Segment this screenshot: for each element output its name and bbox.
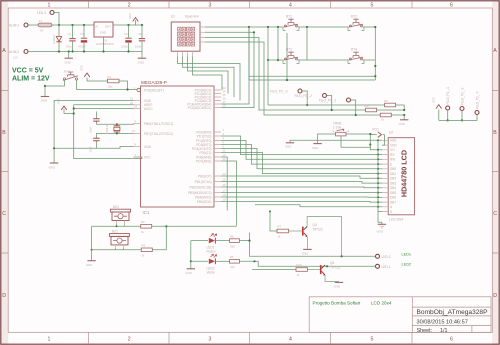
svg-text:GND: GND	[138, 61, 144, 65]
svg-text:RS: RS	[390, 153, 394, 157]
svg-text:FILO_P2_-3: FILO_P2_-3	[270, 90, 288, 94]
junction r8	[248, 240, 250, 242]
wire vertical bt net 287	[286, 33, 288, 80]
wire Q5 collector to LED-1 net	[325, 265, 327, 266]
svg-text:VCC: VCC	[80, 65, 84, 71]
svg-text:5: 5	[371, 336, 374, 342]
svg-text:16: 16	[223, 183, 227, 187]
wire lcd pin stub rw	[378, 158, 382, 160]
svg-text:1/1: 1/1	[440, 328, 448, 334]
svg-text:TIP122: TIP122	[330, 266, 341, 270]
svg-text:RW: RW	[390, 158, 395, 162]
wire lcd pin stub db3	[378, 182, 382, 184]
junction filo p1-1	[447, 119, 449, 121]
wire R7 to Q4 base	[289, 230, 303, 232]
resistor R9	[230, 260, 240, 264]
svg-text:U2: U2	[389, 131, 393, 135]
wire lcd A feed	[255, 205, 300, 207]
svg-text:BombObj_ATmega328P: BombObj_ATmega328P	[417, 309, 489, 316]
svg-text:PD1(TXD): PD1(TXD)	[197, 134, 212, 138]
MCU right pin names PC	[187, 88, 211, 110]
resistor R6	[366, 108, 377, 112]
svg-text:Q4: Q4	[313, 223, 317, 227]
LED LED1	[209, 234, 217, 244]
junction r7 feed	[269, 210, 271, 212]
wire lcd pin stub db4	[378, 187, 382, 189]
svg-text:GND: GND	[65, 61, 71, 65]
connector FILO_P2-2 pin	[323, 94, 327, 98]
svg-text:6: 6	[450, 336, 453, 342]
MCU right pin names PB	[188, 174, 212, 204]
svg-text:VCC: VCC	[372, 127, 379, 131]
svg-text:PB1(OC1A): PB1(OC1A)	[195, 180, 212, 184]
svg-text:C: C	[493, 211, 497, 217]
svg-text:VSS: VSS	[390, 139, 396, 143]
wire lcd net column	[377, 140, 379, 211]
wire BT3 row	[268, 59, 283, 61]
buzzer BZ1 pin stubs	[117, 221, 125, 224]
svg-text:1N4007: 1N4007	[52, 34, 56, 44]
lcd column junctions	[377, 139, 379, 208]
svg-text:MEGA328-P: MEGA328-P	[141, 80, 167, 85]
wire vcc to R1	[87, 80, 108, 82]
connector LED-1 pin	[376, 264, 380, 268]
wire PB0 to db2	[221, 176, 378, 178]
wire R1 to reset net	[119, 81, 128, 90]
wire lcd pin stub a	[378, 206, 382, 208]
IC1 body	[141, 86, 215, 207]
svg-text:R9: R9	[230, 255, 234, 259]
wire PD6 down	[221, 157, 227, 211]
wire R5 to gnd column	[391, 114, 404, 116]
wire buzzer rail 2	[92, 249, 142, 251]
capacitor C7 22pF	[93, 112, 99, 125]
MCU left pin stubs	[134, 101, 141, 158]
connector FILO_P2-3 pin	[298, 89, 302, 93]
vcc symbol filo p1	[436, 105, 442, 121]
svg-text:PB4(MISO): PB4(MISO)	[195, 195, 211, 199]
svg-text:Progetto Bomba Softair: Progetto Bomba Softair	[313, 301, 361, 306]
resistor R8	[230, 239, 240, 243]
wire ALIM-1 to fuse	[28, 24, 38, 26]
title block outline	[309, 297, 491, 333]
svg-text:GND: GND	[86, 263, 92, 267]
svg-text:PD5(T1): PD5(T1)	[199, 151, 211, 155]
trimmer TRM1	[333, 129, 350, 136]
junction bus76 right	[374, 75, 376, 77]
wire bus horizontal y80	[249, 27, 375, 80]
wire led1 left	[191, 240, 208, 242]
junction sw-gnd	[44, 85, 46, 87]
resistor R10	[296, 268, 308, 272]
connector FILO_P2-1 pin	[347, 98, 351, 102]
svg-text:LED1: LED1	[402, 252, 412, 256]
svg-text:DB3: DB3	[390, 182, 396, 186]
ground symbol pullups	[399, 115, 409, 126]
wire trimmer wiper	[341, 134, 370, 147]
wire filo p2-2 drop	[327, 96, 332, 111]
wire LED-3 to rail	[54, 13, 59, 26]
svg-text:E: E	[390, 163, 392, 167]
svg-text:R1: R1	[108, 75, 112, 79]
svg-text:13: 13	[223, 157, 227, 161]
wire lcd pin stub rs	[378, 154, 382, 156]
ground symbol Q5	[334, 282, 344, 288]
svg-text:VCC: VCC	[432, 97, 436, 103]
svg-text:IN: IN	[95, 24, 98, 28]
right margin band	[492, 0, 500, 345]
vcc symbol analog	[61, 106, 67, 114]
junction bt row a	[267, 26, 269, 28]
junction filo p2-3	[306, 104, 308, 106]
wire R10 feed	[252, 269, 296, 271]
junction r6 gnd	[403, 109, 405, 111]
svg-text:5: 5	[371, 3, 374, 9]
capacitor C3 electrolytic	[125, 25, 131, 52]
wire PB5 to db7	[221, 201, 378, 204]
connector FILO_P1-3 pin	[475, 111, 479, 115]
wire BT2 right to bus	[363, 27, 375, 80]
LCD body	[388, 138, 414, 215]
svg-text:DB6: DB6	[390, 196, 396, 200]
junction bt row c	[306, 26, 308, 28]
svg-text:HD44780 LCD: HD44780 LCD	[400, 150, 409, 197]
keypad key dots	[179, 29, 194, 45]
svg-text:330: 330	[230, 265, 235, 269]
vcc symbol reset pullup	[84, 73, 90, 81]
wire PC5 up to row2	[221, 32, 254, 107]
ground symbol output section	[138, 52, 146, 65]
svg-text:PB0(ICP): PB0(ICP)	[198, 174, 211, 178]
wire AVCC pin	[74, 108, 134, 110]
junction PC4 row1	[248, 26, 250, 28]
svg-text:LM7805S/220: LM7805S/220	[96, 42, 114, 46]
wire vertical bt net 268	[267, 27, 269, 105]
svg-text:LED2: LED2	[402, 262, 412, 266]
ground symbol vss	[285, 143, 294, 149]
top band column dividers	[89, 1, 413, 8]
wire bz2 pins to rail	[116, 248, 124, 250]
resistor R1	[108, 79, 120, 83]
voltage regulator V1 box	[94, 22, 113, 37]
wire PB3 to db5	[221, 192, 378, 194]
wire lcd pin stub db7	[378, 201, 382, 203]
crystal Q1	[114, 124, 120, 133]
connector FILO_P1-2 pin	[460, 107, 464, 111]
wire R2 right	[152, 225, 237, 227]
svg-text:1: 1	[48, 3, 51, 9]
junction bz1 rail	[116, 225, 118, 227]
reset inversion bubble	[137, 88, 140, 91]
capacitor C8 22pF	[93, 133, 99, 148]
junction avcc	[73, 107, 75, 109]
wire switch left to gnd	[45, 80, 65, 96]
buzzer BZ2 pin stubs	[116, 245, 124, 248]
wire R9 to LED-1 connector	[239, 261, 375, 266]
junction bt3 left	[267, 59, 269, 61]
wire lcd vss gnd	[290, 140, 382, 142]
button BT1	[283, 19, 299, 30]
wire trimmer left to gnd	[318, 134, 336, 143]
left margin band	[0, 0, 8, 345]
svg-text:Q5: Q5	[330, 261, 334, 265]
wire XTAL1 net	[96, 123, 133, 126]
resistor R4	[385, 103, 396, 107]
svg-text:FILO_P2_-1: FILO_P2_-1	[319, 99, 337, 103]
wire lcd pin stub k	[378, 211, 382, 213]
svg-text:R7: R7	[278, 225, 282, 229]
svg-text:ALIM-1: ALIM-1	[9, 24, 20, 28]
svg-text:18: 18	[223, 193, 227, 197]
svg-text:D: D	[2, 293, 6, 299]
junction PC5 row2	[253, 31, 255, 33]
wire PB2 to db4	[221, 186, 378, 189]
wire PC4 up to row1	[221, 27, 249, 104]
svg-text:GND: GND	[377, 230, 383, 234]
junction r9	[253, 260, 255, 262]
svg-text:100nF: 100nF	[135, 45, 143, 49]
svg-text:LED-2: LED-2	[382, 255, 391, 259]
wire bus horizontal y76	[249, 75, 375, 77]
keypad body	[171, 22, 200, 51]
svg-text:GND: GND	[100, 30, 106, 34]
wire Q4 collector loop to LED-2 net	[307, 217, 342, 257]
svg-text:2: 2	[128, 336, 131, 342]
wire R3 right to node	[152, 226, 166, 250]
svg-text:4: 4	[289, 336, 292, 342]
resistor R3	[141, 248, 152, 252]
wire Q5 emitter to gnd	[325, 275, 339, 282]
connector FILO_P1-1 pin	[446, 106, 450, 110]
svg-text:PB6(XTAL1/TOSC1): PB6(XTAL1/TOSC1)	[144, 122, 173, 126]
svg-text:C3: C3	[124, 32, 128, 36]
svg-text:2: 2	[128, 3, 131, 9]
svg-text:5A: 5A	[40, 29, 44, 33]
svg-text:3: 3	[209, 3, 212, 9]
svg-text:B: B	[493, 130, 497, 136]
svg-text:C6: C6	[138, 32, 142, 36]
junction xtal1	[116, 123, 118, 125]
wire keypad col1 to PC3	[178, 56, 241, 100]
svg-text:PB5(SCK): PB5(SCK)	[197, 200, 212, 204]
svg-text:15: 15	[223, 178, 227, 182]
junction bt2 bus mid	[374, 65, 376, 67]
wire keypad col2 to PC2	[183, 56, 235, 97]
svg-text:17: 17	[223, 189, 227, 193]
ground symbol lcd	[377, 224, 387, 233]
svg-text:12V: 12V	[13, 56, 18, 60]
svg-text:GND: GND	[49, 166, 55, 170]
transistor Q4	[302, 227, 307, 238]
keypad keys 4x4	[178, 27, 195, 46]
svg-text:330: 330	[230, 244, 235, 248]
ground symbol leds	[186, 269, 196, 275]
svg-text:GND: GND	[186, 271, 192, 275]
svg-text:PB7(XTAL2/TOSC2): PB7(XTAL2/TOSC2)	[144, 132, 173, 136]
junction reset net	[126, 88, 128, 90]
junction gnd-C4	[83, 50, 85, 52]
wire lcd vo	[370, 145, 382, 150]
wire led2 left	[191, 260, 208, 262]
svg-text:FILO_P1_-3: FILO_P1_-3	[475, 91, 479, 109]
svg-text:220uF: 220uF	[121, 45, 129, 49]
LCD pin stubs	[382, 140, 388, 211]
svg-text:AVCC: AVCC	[144, 107, 153, 111]
svg-text:VCC: VCC	[128, 13, 132, 19]
wire r8 stub up	[249, 233, 251, 241]
junction trim right	[369, 133, 371, 135]
svg-text:Verde: Verde	[207, 270, 216, 274]
svg-text:R4: R4	[384, 99, 388, 103]
resistor R2	[141, 225, 152, 229]
connector LED-2 pin	[376, 254, 380, 258]
wire lcd pin stub e	[378, 163, 382, 165]
wire vcc to aref/avcc loop	[64, 105, 142, 159]
capacitor C1	[69, 25, 75, 52]
svg-text:BT2: BT2	[351, 15, 357, 19]
svg-text:21: 21	[130, 97, 134, 101]
left band row dividers	[1, 91, 8, 254]
wire R8 to LED-2 connector	[239, 241, 375, 257]
svg-text:GND: GND	[41, 99, 47, 103]
wire lcd vdd from vcc	[382, 135, 384, 146]
wire vertical bt net 307	[306, 27, 308, 60]
svg-text:GND: GND	[302, 252, 308, 256]
wire keypad col3 to PC1	[188, 56, 229, 93]
wire led1 to R8	[216, 240, 230, 242]
junction gnd drop	[53, 147, 55, 149]
svg-text:6: 6	[450, 3, 453, 9]
svg-text:GND: GND	[334, 285, 340, 289]
svg-text:1-10k: 1-10k	[333, 126, 341, 130]
wire PB1 to db3	[221, 182, 378, 184]
svg-text:FILO_P1_-2: FILO_P1_-2	[460, 87, 464, 105]
wire PD3 to e	[221, 145, 378, 165]
svg-text:C: C	[2, 211, 6, 217]
wire buzzer net up	[235, 210, 237, 226]
LCD pin names	[390, 139, 397, 214]
MCU right pin stubs PC	[214, 90, 221, 108]
svg-text:A: A	[2, 48, 6, 54]
junction gnd-diode	[58, 50, 60, 52]
svg-text:LCD 20x4: LCD 20x4	[389, 217, 403, 221]
ground symbol trimmer	[312, 144, 322, 150]
wire lcd pin stub db2	[378, 177, 382, 179]
wire +12V rail top	[52, 24, 94, 26]
svg-text:10: 10	[132, 129, 136, 133]
svg-text:VCC: VCC	[144, 155, 151, 159]
svg-text:10k: 10k	[364, 104, 369, 108]
junction led gnd	[190, 260, 192, 262]
svg-text:LED-1: LED-1	[382, 265, 391, 269]
wire Q4 emitter to gnd	[306, 237, 308, 249]
svg-text:VDD: VDD	[390, 144, 397, 148]
svg-text:ALIM-2: ALIM-2	[9, 50, 20, 54]
junction out-C6	[141, 24, 143, 26]
capacitor C4 electrolytic	[81, 25, 87, 52]
buzzer BZ2	[110, 234, 130, 245]
button BT3	[283, 52, 299, 63]
junction bt2 bus	[374, 26, 376, 28]
buzzer BZ1	[111, 209, 131, 220]
svg-text:ALIM = 12V: ALIM = 12V	[12, 76, 50, 83]
wire XTAL2 net	[96, 132, 133, 134]
wire backlight A	[300, 206, 378, 208]
junction bt row b2	[277, 26, 279, 28]
svg-text:22pF: 22pF	[89, 126, 93, 133]
svg-text:LED-3: LED-3	[37, 11, 46, 15]
capacitor C6	[139, 25, 145, 52]
svg-text:DB0: DB0	[390, 167, 396, 171]
junction filo p2-2	[331, 109, 333, 111]
wire R10 to Q5 base	[308, 269, 320, 271]
svg-text:R10: R10	[297, 263, 303, 267]
junction q5 led1	[326, 265, 328, 267]
svg-text:IC1: IC1	[143, 210, 150, 215]
wire led2 to R9	[216, 260, 230, 262]
svg-text:GND: GND	[312, 146, 318, 150]
button BT2	[348, 19, 364, 30]
svg-text:14: 14	[223, 172, 227, 176]
svg-text:BT4: BT4	[351, 48, 357, 52]
wire PD5 to db1	[221, 153, 378, 174]
svg-text:F1: F1	[39, 19, 43, 23]
wire lcd pin stub db1	[378, 173, 382, 175]
resistor R5	[380, 113, 391, 117]
wire R6 to gnd column	[377, 109, 405, 111]
junction trim wiper	[369, 143, 371, 145]
vcc symbol lcd	[370, 132, 381, 138]
wire lcd pin stub db6	[378, 196, 382, 198]
svg-text:3: 3	[209, 336, 212, 342]
wire pullup row R4	[268, 104, 385, 106]
junction r2 node	[165, 225, 167, 227]
wire keypad row1	[205, 26, 283, 28]
junction q4 led2	[341, 255, 343, 257]
junction xtal2	[116, 132, 118, 134]
ground symbol input section	[65, 52, 73, 65]
svg-text:LCD 20x4: LCD 20x4	[371, 301, 392, 306]
junction rail-C1	[71, 24, 73, 26]
svg-text:PB2(SS/OC1B): PB2(SS/OC1B)	[190, 185, 212, 189]
svg-text:BZ1: BZ1	[113, 205, 119, 209]
keypad right pin stubs	[200, 27, 205, 42]
svg-text:R8: R8	[230, 234, 234, 238]
svg-text:A: A	[493, 48, 497, 54]
svg-text:TIP122: TIP122	[313, 228, 324, 232]
LED LED2	[209, 254, 217, 264]
junction out-C3	[127, 24, 129, 26]
svg-text:FILO_P2_-2: FILO_P2_-2	[295, 94, 313, 98]
wire trimmer right to lcd	[346, 133, 370, 135]
wire lcd k to gnd	[378, 212, 382, 224]
svg-text:B: B	[2, 130, 6, 136]
svg-text:DB2: DB2	[390, 177, 396, 181]
svg-text:Sheet:: Sheet:	[417, 328, 433, 334]
wire ground rail bottom	[28, 51, 142, 53]
wire filo p2-1 drop	[351, 100, 356, 115]
wire keypad col4 to PC0	[193, 56, 223, 90]
wire keypad row4 to R5	[205, 42, 380, 115]
switch RST	[63, 72, 78, 80]
connector ALIM-2 pin	[24, 50, 28, 54]
svg-text:BZ2: BZ2	[112, 230, 118, 234]
MCU left pin numbers	[130, 86, 138, 157]
wire BT1 to BT2	[298, 26, 348, 28]
svg-text:U1: U1	[171, 15, 175, 19]
wire keypad row3 to R6	[205, 38, 366, 111]
ground symbol crystal area	[49, 148, 59, 169]
